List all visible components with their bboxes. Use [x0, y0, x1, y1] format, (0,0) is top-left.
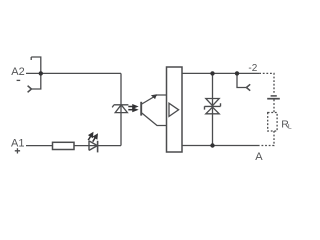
svg-text:A2: A2 [11, 66, 24, 78]
svg-text:L: L [288, 124, 292, 131]
svg-text:A: A [255, 151, 263, 163]
svg-text:-2: -2 [248, 63, 257, 74]
svg-text:A1: A1 [11, 138, 24, 150]
